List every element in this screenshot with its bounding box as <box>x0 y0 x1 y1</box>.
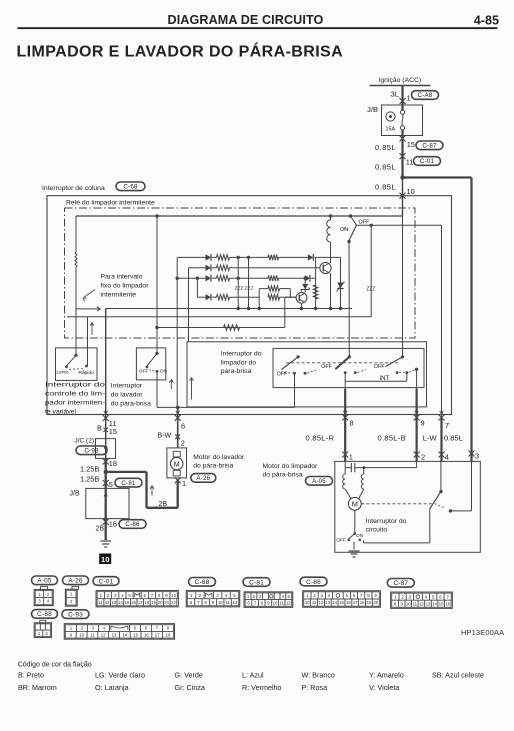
svg-text:C-88: C-88 <box>37 611 52 618</box>
svg-text:Y: Amarelo: Y: Amarelo <box>369 670 404 679</box>
svg-text:16: 16 <box>346 600 351 605</box>
svg-text:16: 16 <box>445 601 450 606</box>
svg-text:B: B <box>97 424 102 433</box>
svg-text:10: 10 <box>407 187 415 196</box>
svg-text:1: 1 <box>182 479 186 488</box>
svg-text:OFF: OFF <box>336 537 346 543</box>
svg-text:10: 10 <box>101 555 109 564</box>
svg-text:C-01: C-01 <box>99 578 114 585</box>
svg-text:OFF: OFF <box>359 220 370 226</box>
svg-text:W: Branco: W: Branco <box>302 670 335 679</box>
svg-text:0.85L-B: 0.85L-B <box>378 434 406 443</box>
svg-text:do lavador: do lavador <box>111 392 143 399</box>
svg-text:Motor do limpador: Motor do limpador <box>263 463 319 470</box>
svg-text:BR: Marrom: BR: Marrom <box>18 683 57 692</box>
svg-text:INT: INT <box>380 376 390 382</box>
svg-text:pára-brisa: pára-brisa <box>221 368 252 375</box>
svg-text:Ignição (ACC): Ignição (ACC) <box>379 77 422 84</box>
svg-text:15: 15 <box>109 427 117 436</box>
svg-text:fixo do limpador: fixo do limpador <box>101 283 150 290</box>
svg-text:12: 12 <box>286 601 291 606</box>
svg-text:OFF: OFF <box>139 369 149 375</box>
svg-text:Interruptor do: Interruptor do <box>366 518 407 525</box>
svg-text:C-86: C-86 <box>125 521 140 528</box>
svg-text:0.85L: 0.85L <box>375 163 396 172</box>
svg-text:4: 4 <box>445 453 449 462</box>
svg-text:18: 18 <box>360 600 365 605</box>
svg-text:4-85: 4-85 <box>474 14 499 28</box>
svg-text:18: 18 <box>109 459 117 468</box>
svg-text:Motor do lavador: Motor do lavador <box>193 454 245 461</box>
svg-text:14: 14 <box>432 601 437 606</box>
svg-text:15A: 15A <box>386 127 396 133</box>
svg-text:C-68: C-68 <box>195 579 210 586</box>
svg-text:B: Preto: B: Preto <box>18 670 44 679</box>
svg-text:20: 20 <box>158 600 163 605</box>
svg-text:5: 5 <box>109 480 113 489</box>
svg-text:17: 17 <box>155 632 160 637</box>
svg-text:Lento: Lento <box>57 370 69 376</box>
svg-text:A-26: A-26 <box>196 475 210 482</box>
svg-text:2: 2 <box>421 453 425 462</box>
svg-text:12: 12 <box>101 632 106 637</box>
svg-text:Interruptor do: Interruptor do <box>45 382 105 389</box>
svg-text:LIMPADOR E LAVADOR DO PÁRA-BRI: LIMPADOR E LAVADOR DO PÁRA-BRISA <box>17 42 344 61</box>
svg-text:6: 6 <box>181 422 185 431</box>
svg-text:9: 9 <box>421 419 425 428</box>
svg-text:LG: Verde claro: LG: Verde claro <box>95 670 145 679</box>
svg-text:11: 11 <box>90 632 95 637</box>
svg-text:0.85L: 0.85L <box>375 183 396 192</box>
svg-text:A-26: A-26 <box>68 578 83 585</box>
svg-text:18: 18 <box>166 632 171 637</box>
svg-text:13: 13 <box>426 601 431 606</box>
svg-text:J/B: J/B <box>70 491 80 498</box>
svg-text:18: 18 <box>145 600 150 605</box>
svg-text:ZZZ ZZZ: ZZZ ZZZ <box>235 286 254 292</box>
svg-text:14: 14 <box>122 632 127 637</box>
svg-text:DIAGRAMA DE CIRCUITO: DIAGRAMA DE CIRCUITO <box>168 13 324 27</box>
svg-text:7: 7 <box>445 421 449 430</box>
svg-text:do pára-brisa: do pára-brisa <box>193 462 233 469</box>
svg-text:A-05: A-05 <box>37 578 52 585</box>
svg-text:20: 20 <box>373 600 378 605</box>
svg-text:13: 13 <box>325 600 330 605</box>
svg-text:11: 11 <box>413 601 418 606</box>
svg-text:ON: ON <box>356 533 364 539</box>
svg-text:17: 17 <box>138 600 143 605</box>
svg-text:3: 3 <box>475 452 479 461</box>
svg-text:C-81: C-81 <box>249 579 264 586</box>
svg-text:0.85L: 0.85L <box>444 434 463 443</box>
svg-text:12: 12 <box>319 600 324 605</box>
svg-text:11: 11 <box>225 600 230 605</box>
svg-text:14: 14 <box>118 600 123 605</box>
svg-text:C-87: C-87 <box>393 580 408 587</box>
svg-text:G: Verde: G: Verde <box>175 670 203 679</box>
svg-text:M: M <box>352 500 358 509</box>
svg-text:R: Vermelho: R: Vermelho <box>242 683 282 692</box>
svg-text:intermitente: intermitente <box>101 292 137 299</box>
svg-text:12: 12 <box>233 600 238 605</box>
svg-text:10: 10 <box>171 593 176 598</box>
svg-text:HP13E00AA: HP13E00AA <box>461 628 504 637</box>
svg-text:C-87: C-87 <box>422 143 437 150</box>
svg-text:pador intermiten-: pador intermiten- <box>45 400 105 407</box>
svg-text:Gr: Cinza: Gr: Cinza <box>175 683 205 692</box>
svg-text:C-93: C-93 <box>84 448 99 455</box>
svg-text:Para intervalo: Para intervalo <box>101 274 143 281</box>
svg-text:controle do lim-: controle do lim- <box>45 391 105 398</box>
svg-text:0.85L: 0.85L <box>375 143 396 152</box>
svg-text:V: Violeta: V: Violeta <box>369 683 399 692</box>
svg-text:Interruptor do: Interruptor do <box>221 351 262 358</box>
svg-text:0.85L-R: 0.85L-R <box>306 434 335 443</box>
svg-text:14: 14 <box>332 600 337 605</box>
svg-text:11: 11 <box>312 600 317 605</box>
svg-text:do pára-brisa: do pára-brisa <box>263 471 303 478</box>
svg-text:Interruptor de coluna: Interruptor de coluna <box>42 185 105 192</box>
svg-text:2B: 2B <box>159 501 168 508</box>
svg-text:OFF: OFF <box>277 372 288 378</box>
svg-text:Rápido: Rápido <box>79 370 95 376</box>
svg-text:Interruptor: Interruptor <box>111 383 143 390</box>
svg-text:10: 10 <box>79 632 84 637</box>
svg-text:13: 13 <box>112 632 117 637</box>
svg-text:J/C (2): J/C (2) <box>75 438 95 445</box>
svg-text:A-05: A-05 <box>312 478 326 485</box>
svg-text:C-01: C-01 <box>420 158 435 165</box>
svg-text:1.25B: 1.25B <box>80 474 99 483</box>
svg-text:13: 13 <box>111 600 116 605</box>
svg-text:11: 11 <box>279 601 284 606</box>
svg-text:15: 15 <box>125 600 130 605</box>
svg-text:21: 21 <box>164 600 169 605</box>
svg-text:C-81: C-81 <box>121 480 136 487</box>
svg-text:C-A8: C-A8 <box>418 92 433 99</box>
svg-text:limpador do: limpador do <box>221 359 257 366</box>
svg-text:2: 2 <box>181 438 185 447</box>
svg-text:L: Azul: L: Azul <box>242 670 264 679</box>
svg-text:11: 11 <box>406 158 414 167</box>
svg-text:O: Laranja: O: Laranja <box>95 683 129 692</box>
svg-text:3L: 3L <box>391 90 399 99</box>
svg-text:12: 12 <box>419 601 424 606</box>
svg-text:Código de cor da fiação: Código de cor da fiação <box>18 662 92 669</box>
svg-text:11: 11 <box>98 600 103 605</box>
svg-text:16: 16 <box>131 600 136 605</box>
svg-text:16: 16 <box>144 632 149 637</box>
svg-text:17: 17 <box>353 600 358 605</box>
svg-text:10: 10 <box>406 601 411 606</box>
svg-text:19: 19 <box>151 600 156 605</box>
svg-text:circuito: circuito <box>366 527 388 534</box>
svg-text:10: 10 <box>273 601 278 606</box>
svg-text:B-W: B-W <box>158 433 172 440</box>
svg-text:12: 12 <box>105 600 110 605</box>
svg-text:15: 15 <box>339 600 344 605</box>
svg-text:8: 8 <box>350 419 354 428</box>
svg-text:22: 22 <box>171 600 176 605</box>
svg-text:1.25B: 1.25B <box>80 465 99 474</box>
svg-text:1: 1 <box>349 453 353 462</box>
svg-text:M: M <box>174 461 180 468</box>
svg-text:15: 15 <box>439 601 444 606</box>
svg-text:OFF: OFF <box>374 364 385 370</box>
svg-text:do pára-brisa: do pára-brisa <box>111 401 151 408</box>
svg-text:15: 15 <box>407 140 415 149</box>
svg-text:OFF: OFF <box>321 364 332 370</box>
svg-text:J/B: J/B <box>367 105 378 114</box>
svg-text:2B: 2B <box>95 526 104 533</box>
svg-text:10: 10 <box>305 600 310 605</box>
svg-text:P: Rosa: P: Rosa <box>302 683 328 692</box>
svg-text:C-86: C-86 <box>306 579 321 586</box>
svg-text:ON: ON <box>160 369 168 375</box>
svg-text:Relé do limpador intermitente: Relé do limpador intermitente <box>66 200 155 207</box>
svg-text:1: 1 <box>407 94 411 103</box>
svg-text:10: 10 <box>218 600 223 605</box>
svg-text:C-68: C-68 <box>123 184 138 191</box>
svg-text:SB: Azul celeste: SB: Azul celeste <box>432 670 484 679</box>
svg-text:ZZZ: ZZZ <box>366 287 375 293</box>
svg-text:te variável: te variável <box>45 409 76 416</box>
svg-text:16: 16 <box>109 520 117 529</box>
svg-text:15: 15 <box>133 632 138 637</box>
svg-text:C-93: C-93 <box>68 611 83 618</box>
svg-text:L-W: L-W <box>423 434 438 443</box>
svg-text:19: 19 <box>367 600 372 605</box>
